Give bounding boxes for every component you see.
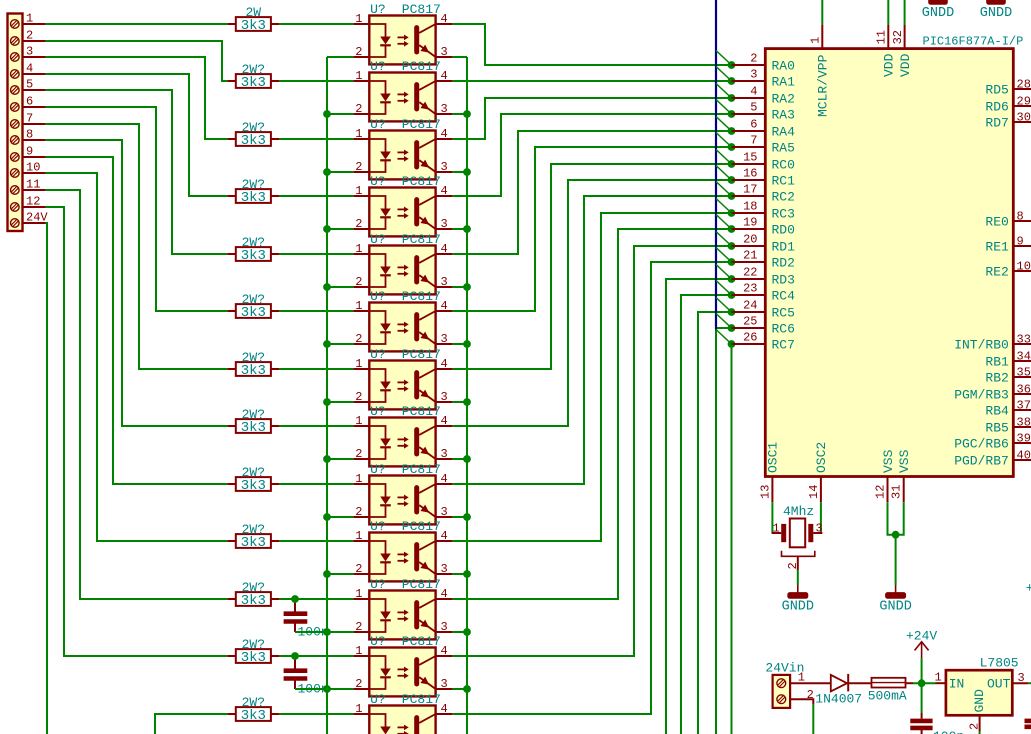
svg-text:PC817: PC817 xyxy=(402,2,441,17)
svg-text:U?: U? xyxy=(370,519,386,534)
junction left rail U2.2 xyxy=(323,110,331,118)
svg-text:RD2: RD2 xyxy=(772,256,795,271)
svg-text:4: 4 xyxy=(441,472,448,486)
svg-text:4: 4 xyxy=(441,69,448,83)
svg-text:U?: U? xyxy=(370,232,386,247)
wire U3 pin2 to left rail xyxy=(327,171,353,173)
wire P1.10 to R10 xyxy=(46,173,228,541)
svg-text:1: 1 xyxy=(773,522,780,536)
bus entry row 1 xyxy=(716,51,732,66)
svg-text:1: 1 xyxy=(355,472,362,486)
svg-text:2W?: 2W? xyxy=(242,637,265,652)
svg-text:3k3: 3k3 xyxy=(241,478,266,494)
svg-text:RD6: RD6 xyxy=(985,100,1008,115)
chip pin 31 VSS (bottom) xyxy=(890,449,912,502)
chip left pin 6 RA4 xyxy=(732,118,796,140)
svg-text:4: 4 xyxy=(441,12,448,26)
chip right pin 39 PGC/RB6 xyxy=(954,432,1031,452)
svg-text:RC4: RC4 xyxy=(772,289,796,304)
svg-text:10: 10 xyxy=(26,160,40,174)
svg-text:RC2: RC2 xyxy=(772,190,795,205)
resistor R13 3k3 xyxy=(227,695,279,724)
optocoupler U7 PC817 xyxy=(353,347,452,409)
wire R11 to U11 pin1 xyxy=(279,598,353,600)
svg-text:3: 3 xyxy=(441,275,448,289)
junction chip pin row 2 xyxy=(728,77,736,85)
svg-text:3: 3 xyxy=(441,45,448,59)
optocoupler U1 PC817 xyxy=(353,2,452,64)
capacitor C4 (5V rail, cut at edge) xyxy=(1025,721,1031,727)
svg-text:2W?: 2W? xyxy=(242,120,265,135)
wire fuse to regulator IN xyxy=(913,682,936,684)
svg-text:3k3: 3k3 xyxy=(241,363,266,379)
svg-text:4: 4 xyxy=(750,85,757,99)
wire U11 pin3 to right rail xyxy=(452,631,467,633)
svg-text:PC817: PC817 xyxy=(402,404,441,419)
junction chip pin row 12 xyxy=(728,242,736,250)
svg-text:8: 8 xyxy=(1017,210,1024,224)
bus entry row 5 xyxy=(716,117,732,132)
wire U1 pin3 to right rail xyxy=(452,56,467,58)
svg-text:PGD/RB7: PGD/RB7 xyxy=(954,454,1009,469)
svg-text:1: 1 xyxy=(26,11,33,25)
junction right rail U9.3 xyxy=(463,513,471,521)
wire chip pin row 16 down off-sheet xyxy=(698,312,732,734)
wire R3 to U3 pin1 xyxy=(279,138,353,140)
wire R13 to U13 pin1 xyxy=(279,713,353,715)
svg-text:4: 4 xyxy=(441,184,448,198)
svg-text:8: 8 xyxy=(26,127,33,141)
IC U14 PIC16F877A-I/P xyxy=(765,35,1023,477)
svg-text:4Mhz: 4Mhz xyxy=(783,504,814,519)
svg-text:3: 3 xyxy=(441,447,448,461)
resistor R9 3k3 xyxy=(227,465,279,494)
left common rail (opto cathodes) xyxy=(326,57,328,734)
optocoupler U10 PC817 xyxy=(353,519,452,581)
resistor R11 3k3 xyxy=(227,580,279,609)
wire P1.4 to R4 xyxy=(46,74,228,196)
svg-text:18: 18 xyxy=(743,200,757,214)
chip right pin 35 RB2 xyxy=(985,366,1031,386)
svg-text:OSC1: OSC1 xyxy=(766,442,781,473)
svg-text:500mA: 500mA xyxy=(868,689,907,704)
wire U1 pin2 to left rail xyxy=(327,56,353,58)
wire R6 to U6 pin1 xyxy=(279,310,353,312)
chip pin 11 VDD (top) xyxy=(875,0,897,77)
junction chip pin row 4 xyxy=(728,110,736,118)
chip left pin 19 RD0 xyxy=(732,216,795,238)
bus entry row 4 xyxy=(716,100,732,115)
junction chip pin row 13 xyxy=(728,258,736,266)
svg-text:RD3: RD3 xyxy=(772,273,795,288)
svg-text:32: 32 xyxy=(891,30,905,44)
wire U6 pin4 to chip pin row 6 xyxy=(452,147,731,311)
bus entry row 8 xyxy=(716,166,732,181)
svg-text:3k3: 3k3 xyxy=(241,190,266,206)
svg-text:2W?: 2W? xyxy=(242,177,265,192)
crystal X1 4Mhz xyxy=(772,504,823,570)
svg-text:RC6: RC6 xyxy=(772,322,795,337)
right common rail (opto emitters) xyxy=(466,57,468,734)
svg-text:37: 37 xyxy=(1017,399,1031,413)
optocoupler U4 PC817 xyxy=(353,174,452,236)
svg-text:5: 5 xyxy=(750,101,757,115)
svg-text:PC817: PC817 xyxy=(402,462,441,477)
svg-text:1: 1 xyxy=(809,37,823,44)
wire P1.6 to R6 xyxy=(46,107,228,311)
junction chip pin row 1 xyxy=(728,61,736,69)
svg-text:2: 2 xyxy=(355,447,362,461)
svg-text:4: 4 xyxy=(26,61,33,75)
svg-text:U?: U? xyxy=(370,577,386,592)
optocoupler U12 PC817 xyxy=(353,634,452,696)
svg-text:1: 1 xyxy=(355,127,362,141)
junction chip pin row 6 xyxy=(728,143,736,151)
svg-text:2W?: 2W? xyxy=(242,465,265,480)
svg-text:3k3: 3k3 xyxy=(241,248,266,264)
svg-text:7: 7 xyxy=(750,134,757,148)
svg-text:7: 7 xyxy=(26,111,33,125)
resistor R12 3k3 xyxy=(227,637,279,666)
svg-text:16: 16 xyxy=(743,167,757,181)
wire chip pin row 17 down off-sheet xyxy=(716,328,732,734)
svg-text:L7805: L7805 xyxy=(980,656,1019,671)
diode D1 1N4007 xyxy=(790,674,862,707)
junction right rail U5.3 xyxy=(463,283,471,291)
junction chip pin row 17 xyxy=(728,324,736,332)
wire U12 pin3 to right rail xyxy=(452,688,467,690)
chip right pin 29 RD6 xyxy=(985,95,1031,115)
svg-text:RB1: RB1 xyxy=(985,355,1009,370)
chip left pin 17 RC2 xyxy=(732,183,795,205)
svg-text:1: 1 xyxy=(355,299,362,313)
junction VSS xyxy=(892,531,900,539)
svg-text:2W?: 2W? xyxy=(242,695,265,710)
svg-text:U?: U? xyxy=(370,289,386,304)
optocoupler U8 PC817 xyxy=(353,404,452,466)
svg-text:1: 1 xyxy=(355,357,362,371)
wire U9 pin3 to right rail xyxy=(452,516,467,518)
svg-text:33: 33 xyxy=(1017,333,1031,347)
svg-text:1: 1 xyxy=(935,671,942,685)
svg-text:3: 3 xyxy=(441,390,448,404)
wire OSC2 to crystal pin3 xyxy=(820,502,822,533)
svg-text:U?: U? xyxy=(370,462,386,477)
wire U10 pin4 to chip pin row 10 xyxy=(452,213,731,541)
chip left pin 3 RA1 xyxy=(732,68,796,90)
svg-text:17: 17 xyxy=(743,183,757,197)
svg-text:RA3: RA3 xyxy=(772,108,795,123)
junction +24V node xyxy=(918,679,926,687)
svg-text:RA1: RA1 xyxy=(772,75,796,90)
wire chip pin row 15 down off-sheet xyxy=(681,295,732,734)
junction left rail U9.2 xyxy=(323,513,331,521)
svg-text:2: 2 xyxy=(355,160,362,174)
wire C2 bottom to rail xyxy=(295,688,327,690)
svg-text:RC3: RC3 xyxy=(772,207,795,222)
junction left rail U3.2 xyxy=(323,168,331,176)
svg-text:4: 4 xyxy=(441,299,448,313)
wire U7 pin4 to chip pin row 7 xyxy=(452,164,731,369)
svg-text:6: 6 xyxy=(750,118,757,132)
svg-text:34: 34 xyxy=(1017,350,1031,364)
svg-text:PC817: PC817 xyxy=(402,519,441,534)
svg-text:26: 26 xyxy=(743,331,757,345)
chip right pin 9 RE1 xyxy=(985,235,1031,255)
chip left pin 21 RD2 xyxy=(732,249,795,271)
svg-text:2W?: 2W? xyxy=(242,292,265,307)
svg-text:2: 2 xyxy=(355,620,362,634)
svg-text:2: 2 xyxy=(355,45,362,59)
svg-text:RB5: RB5 xyxy=(985,421,1008,436)
wire from bottom off-sheet to R13 xyxy=(155,714,227,734)
svg-text:MCLR/VPP: MCLR/VPP xyxy=(816,54,831,117)
bus entry row 6 xyxy=(716,133,732,148)
svg-text:3: 3 xyxy=(441,160,448,174)
svg-text:PC817: PC817 xyxy=(402,59,441,74)
chip left pin 4 RA2 xyxy=(732,85,795,107)
svg-text:3: 3 xyxy=(441,620,448,634)
svg-text:4: 4 xyxy=(441,587,448,601)
svg-text:IN: IN xyxy=(949,677,965,692)
svg-text:31: 31 xyxy=(890,485,904,499)
junction chip pin row 7 xyxy=(728,160,736,168)
svg-text:14: 14 xyxy=(807,485,821,499)
svg-text:35: 35 xyxy=(1017,366,1031,380)
svg-text:RC1: RC1 xyxy=(772,174,796,189)
wire R8 to U8 pin1 xyxy=(279,425,353,427)
svg-text:2: 2 xyxy=(355,332,362,346)
junction left rail U12.2 xyxy=(323,685,331,693)
svg-text:PGM/RB3: PGM/RB3 xyxy=(954,388,1009,403)
bus entry row 16 xyxy=(716,298,732,313)
svg-text:3: 3 xyxy=(750,68,757,82)
bus entry row 10 xyxy=(716,199,732,214)
junction left rail U11.2 xyxy=(323,628,331,636)
wire P1.11 to R11 xyxy=(46,190,228,599)
svg-text:23: 23 xyxy=(743,282,757,296)
svg-text:6: 6 xyxy=(26,94,33,108)
svg-text:RD5: RD5 xyxy=(985,83,1008,98)
svg-text:2: 2 xyxy=(355,677,362,691)
svg-text:INT/RB0: INT/RB0 xyxy=(954,338,1009,353)
junction C1 top xyxy=(291,595,299,603)
wire U5 pin4 to chip pin row 5 xyxy=(452,131,731,254)
wire U2 pin4 to RA1 xyxy=(452,80,731,82)
svg-text:+5V: +5V xyxy=(1026,581,1031,596)
bus entry row 3 xyxy=(716,84,732,99)
svg-text:RC0: RC0 xyxy=(772,158,795,173)
svg-text:3: 3 xyxy=(441,562,448,576)
svg-text:PC817: PC817 xyxy=(402,174,441,189)
wire U4 pin3 to right rail xyxy=(452,228,467,230)
svg-text:2: 2 xyxy=(355,217,362,231)
wire U11 pin2 to left rail xyxy=(327,631,353,633)
wire U13 pin4 to chip pin row 13 xyxy=(452,262,731,714)
resistor R4 3k3 xyxy=(227,177,279,206)
wire U12 pin2 to left rail xyxy=(327,688,353,690)
svg-text:2W: 2W xyxy=(245,5,261,20)
svg-text:20: 20 xyxy=(743,233,757,247)
wire R12 to U12 pin1 xyxy=(279,655,353,657)
svg-text:U?: U? xyxy=(370,404,386,419)
svg-text:4: 4 xyxy=(441,644,448,658)
svg-text:RE2: RE2 xyxy=(985,265,1008,280)
wire U12 pin4 to chip pin row 12 xyxy=(452,246,731,656)
chip pin 14 OSC2 (bottom) xyxy=(807,442,829,502)
wire U10 pin3 to right rail xyxy=(452,573,467,575)
svg-text:PC817: PC817 xyxy=(402,347,441,362)
capacitor C3 (24V rail) xyxy=(910,683,964,734)
svg-text:1: 1 xyxy=(355,702,362,716)
svg-text:U?: U? xyxy=(370,117,386,132)
chip left pin 22 RD3 xyxy=(732,266,795,288)
fuse F1 500mA xyxy=(848,678,913,704)
svg-text:12: 12 xyxy=(874,485,888,499)
optocoupler U13 PC817 xyxy=(353,692,452,734)
svg-text:100n: 100n xyxy=(933,729,964,734)
bus entry row 17 xyxy=(716,314,732,329)
wire U1 pin4 to RA0 xyxy=(452,24,731,65)
svg-text:+24V: +24V xyxy=(906,629,937,644)
svg-text:2: 2 xyxy=(355,102,362,116)
svg-text:12: 12 xyxy=(26,194,40,208)
svg-text:OSC2: OSC2 xyxy=(814,442,829,473)
svg-text:1: 1 xyxy=(355,12,362,26)
bus entry row 7 xyxy=(716,150,732,165)
wire VSS pins to GNDD xyxy=(888,502,904,535)
chip left pin 15 RC0 xyxy=(732,151,795,173)
svg-text:3: 3 xyxy=(816,522,823,536)
svg-text:25: 25 xyxy=(743,315,757,329)
svg-text:3k3: 3k3 xyxy=(241,535,266,551)
svg-text:3: 3 xyxy=(1018,671,1025,685)
svg-text:24: 24 xyxy=(743,299,757,313)
wire U10 pin2 to left rail xyxy=(327,573,353,575)
chip right pin 8 RE0 xyxy=(985,210,1031,230)
junction left rail U10.2 xyxy=(323,570,331,578)
optocoupler U2 PC817 xyxy=(353,59,452,121)
junction left rail U5.2 xyxy=(323,283,331,291)
svg-text:PGC/RB6: PGC/RB6 xyxy=(954,437,1009,452)
wire regulator OUT to +5V (off-sheet) xyxy=(1028,682,1031,684)
svg-text:4: 4 xyxy=(441,242,448,256)
wire U8 pin3 to right rail xyxy=(452,458,467,460)
chip left pin 2 RA0 xyxy=(732,52,795,74)
wire U4 pin4 to chip pin row 4 xyxy=(452,114,731,196)
junction left rail U8.2 xyxy=(323,455,331,463)
svg-text:24V: 24V xyxy=(26,210,48,224)
chip right pin 10 RE2 xyxy=(985,260,1031,280)
svg-text:22: 22 xyxy=(743,266,757,280)
wire P1.24V going down off-sheet xyxy=(46,223,47,734)
wire chip pin row 14 down off-sheet xyxy=(666,279,732,734)
junction right rail U8.3 xyxy=(463,455,471,463)
svg-text:2: 2 xyxy=(355,390,362,404)
wire R10 to U10 pin1 xyxy=(279,540,353,542)
junction right rail U7.3 xyxy=(463,398,471,406)
svg-text:PC817: PC817 xyxy=(402,232,441,247)
resistor R5 3k3 xyxy=(227,235,279,264)
junction right rail U6.3 xyxy=(463,340,471,348)
junction chip pin row 9 xyxy=(728,192,736,200)
capacitor C1 100n xyxy=(284,599,329,640)
svg-text:38: 38 xyxy=(1017,416,1031,430)
svg-text:2: 2 xyxy=(968,723,982,730)
wire U3 pin4 to chip pin row 3 xyxy=(452,98,731,139)
resistor R8 3k3 xyxy=(227,407,279,436)
svg-text:RA2: RA2 xyxy=(772,92,795,107)
svg-text:3k3: 3k3 xyxy=(241,420,266,436)
svg-text:RE0: RE0 xyxy=(985,215,1008,230)
resistor R2 3k3 xyxy=(227,62,279,91)
junction chip pin row 18 xyxy=(728,340,736,348)
chip left pin 23 RC4 xyxy=(732,282,796,304)
wire R9 to U9 pin1 xyxy=(279,483,353,485)
svg-text:2: 2 xyxy=(786,562,800,569)
svg-text:GNDD: GNDD xyxy=(879,600,911,615)
junction C2 top xyxy=(291,652,299,660)
chip left pin 26 RC7 xyxy=(732,331,795,353)
svg-text:RA5: RA5 xyxy=(772,141,795,156)
connector P1 (12 inputs + 24V screw terminal) xyxy=(8,11,49,231)
wire U3 pin3 to right rail xyxy=(452,171,467,173)
svg-text:2W?: 2W? xyxy=(242,350,265,365)
bus entry row 18 xyxy=(716,330,732,345)
svg-text:1: 1 xyxy=(355,587,362,601)
wire U4 pin2 to left rail xyxy=(327,228,353,230)
wire U11 pin4 to chip pin row 11 xyxy=(452,229,731,599)
power symbol GNDD (top) xyxy=(922,0,954,21)
bus entry row 13 xyxy=(716,248,732,263)
svg-text:U?: U? xyxy=(370,2,386,17)
svg-text:PC817: PC817 xyxy=(402,117,441,132)
chip right pin 34 RB1 xyxy=(985,350,1031,370)
power symbol GNDD (crystal) xyxy=(782,585,814,615)
svg-text:RD0: RD0 xyxy=(772,223,795,238)
resistor R10 3k3 xyxy=(227,522,279,551)
wire U6 pin3 to right rail xyxy=(452,343,467,345)
wire R4 to U4 pin1 xyxy=(279,195,353,197)
svg-text:2: 2 xyxy=(355,275,362,289)
junction chip pin row 14 xyxy=(728,275,736,283)
wire P1.5 to R5 xyxy=(46,90,228,254)
wire R1 to U1 pin1 xyxy=(279,23,353,25)
svg-text:3k3: 3k3 xyxy=(241,593,266,609)
svg-text:PC817: PC817 xyxy=(402,577,441,592)
svg-text:9: 9 xyxy=(26,144,33,158)
svg-text:11: 11 xyxy=(875,30,889,44)
svg-text:28: 28 xyxy=(1017,78,1031,92)
svg-text:4: 4 xyxy=(441,127,448,141)
bus entry row 2 xyxy=(716,67,732,82)
wire P1.8 to R8 xyxy=(46,140,228,426)
svg-text:19: 19 xyxy=(743,216,757,230)
optocoupler U5 PC817 xyxy=(353,232,452,294)
wire U5 pin3 to right rail xyxy=(452,286,467,288)
wire U7 pin2 to left rail xyxy=(327,401,353,403)
bus entry row 12 xyxy=(716,232,732,247)
svg-text:VDD: VDD xyxy=(882,53,897,77)
wire R7 to U7 pin1 xyxy=(279,368,353,370)
svg-text:40: 40 xyxy=(1017,449,1031,463)
svg-text:1: 1 xyxy=(355,644,362,658)
chip left pin 7 RA5 xyxy=(732,134,795,156)
wire U8 pin2 to left rail xyxy=(327,458,353,460)
wire U8 pin4 to chip pin row 8 xyxy=(452,180,731,426)
regulator U15 L7805 xyxy=(935,656,1029,734)
svg-text:U?: U? xyxy=(370,692,386,707)
